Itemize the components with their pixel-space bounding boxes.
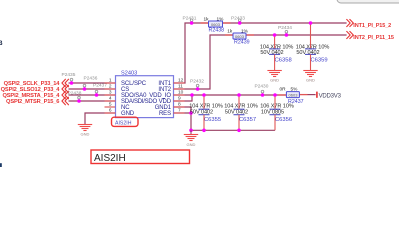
svg-text:C6358: C6358	[275, 58, 292, 64]
test point P2433	[231, 15, 245, 25]
pin stubs red right	[174, 83, 185, 113]
svg-text:0603: 0603	[211, 22, 221, 27]
svg-text:R2439: R2439	[234, 40, 250, 46]
test point P2430	[255, 84, 269, 97]
svg-text:GND: GND	[306, 78, 315, 83]
capacitor C6355	[189, 93, 223, 132]
wire CS net row2	[69, 88, 116, 90]
svg-text:P2431: P2431	[183, 15, 197, 21]
svg-text:INT2_PI_P11_15: INT2_PI_P11_15	[353, 35, 394, 41]
IC pin names right	[149, 81, 172, 117]
svg-text:P2435: P2435	[62, 72, 76, 78]
UI panel corner top-right	[337, 0, 399, 3]
IC pin numbers right	[178, 78, 184, 114]
title block box AIS2IH	[91, 150, 190, 164]
test point P2438	[68, 90, 82, 102]
wire GND pin6	[85, 113, 116, 124]
wire INT2 from pin11 up and right	[174, 35, 347, 89]
svg-text:0603: 0603	[235, 34, 245, 39]
off-page connector chevron row4	[62, 97, 69, 105]
svg-text:C6357: C6357	[239, 117, 256, 123]
test point P2436	[83, 76, 98, 91]
ground chip GND	[78, 125, 92, 131]
wire SDA net row4	[69, 100, 116, 102]
capacitor C6359	[296, 21, 330, 70]
resistor R2439	[225, 28, 254, 45]
test point P2431	[183, 15, 197, 25]
pin stubs red left	[105, 83, 116, 113]
grid letter corner mark	[0, 163, 2, 167]
resistor R2438	[201, 16, 231, 33]
capacitor C6356	[260, 93, 294, 130]
IC pin names left	[121, 81, 158, 117]
svg-text:1k: 1k	[227, 28, 233, 34]
IC S2403 body	[116, 71, 174, 118]
svg-text:C6359: C6359	[311, 58, 328, 64]
svg-text:50V 0402: 50V 0402	[260, 50, 283, 56]
svg-text:B: B	[0, 40, 3, 47]
off-page connector chevron row1	[62, 79, 69, 87]
svg-text:GND: GND	[270, 78, 279, 83]
capacitor C6358	[260, 33, 294, 70]
svg-text:P2436: P2436	[84, 76, 98, 82]
junction VDD/bus	[190, 93, 194, 97]
wire VDD pin9 up to bus	[174, 95, 193, 101]
ground C6359	[303, 71, 317, 83]
wire INT1 from pin12 up and right	[116, 23, 347, 83]
svg-text:GND: GND	[187, 142, 196, 147]
svg-text:5%: 5%	[291, 87, 299, 93]
svg-text:R2438: R2438	[209, 28, 225, 34]
svg-text:C6356: C6356	[275, 117, 292, 123]
junction rail-ground	[189, 129, 193, 133]
svg-text:AIS2IH: AIS2IH	[94, 153, 126, 164]
svg-text:GND: GND	[81, 131, 90, 136]
svg-text:1%: 1%	[217, 16, 225, 22]
wire SDO net row3	[69, 94, 116, 96]
off-page connector chevron row2	[62, 85, 69, 93]
svg-text:INT1_PI_P15_2: INT1_PI_P15_2	[353, 23, 391, 29]
test point P2435	[62, 72, 76, 85]
wire VDD_IO bus pin10	[174, 94, 287, 96]
capacitor C6357	[224, 93, 258, 132]
off-page connector INT2_PI_P11_15	[347, 31, 394, 40]
wire GND1 pin8	[174, 107, 192, 113]
wire RES pin7 join	[174, 113, 192, 130]
svg-text:AIS2IH: AIS2IH	[115, 120, 132, 126]
svg-text:P2434: P2434	[278, 25, 292, 31]
svg-text:RES: RES	[159, 111, 171, 117]
svg-text:5: 5	[109, 102, 112, 108]
IC pin numbers left	[109, 78, 112, 114]
ground C6358	[267, 71, 281, 83]
svg-text:50V 0402: 50V 0402	[296, 50, 319, 56]
svg-text:QSPI2_MTSR_P15_6: QSPI2_MTSR_P15_6	[6, 99, 59, 105]
wire SCL net row1	[69, 82, 116, 84]
svg-text:GND: GND	[121, 111, 135, 117]
pin stub pin5 NC	[105, 106, 116, 108]
junction pin7/pin8	[189, 111, 193, 115]
test point P2432	[190, 78, 204, 90]
wire cap bottom rail	[191, 129, 275, 131]
ground middle rail	[184, 130, 198, 147]
svg-text:0603: 0603	[289, 93, 299, 98]
svg-text:VDD3V3: VDD3V3	[319, 93, 342, 99]
IC value box AIS2IH	[112, 117, 139, 126]
svg-text:P2438: P2438	[68, 90, 82, 96]
svg-text:1k: 1k	[204, 16, 210, 22]
svg-text:C6355: C6355	[204, 117, 221, 123]
off-page connector chevron row3	[62, 91, 69, 99]
power symbol VDD3V3	[317, 92, 342, 100]
test point P2434	[278, 25, 292, 37]
svg-text:1%: 1%	[241, 28, 249, 34]
svg-text:P2430: P2430	[255, 84, 269, 90]
svg-text:P2432: P2432	[190, 78, 204, 84]
resistor R2437	[279, 87, 316, 106]
svg-text:0R: 0R	[280, 87, 287, 93]
test point P2437	[93, 83, 107, 97]
off-page connector INT1_PI_P15_2	[347, 19, 391, 29]
svg-text:S2403: S2403	[121, 71, 137, 77]
